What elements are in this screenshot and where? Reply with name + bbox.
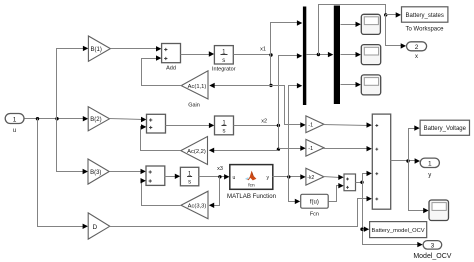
gain B(2) <box>88 107 109 131</box>
svg-text:Add: Add <box>166 66 176 72</box>
svg-text:Battery_states: Battery_states <box>406 13 444 19</box>
wire states to top <box>319 5 386 55</box>
wire OCV down <box>363 183 418 245</box>
wire u to B3 <box>57 119 85 172</box>
svg-text:f(u): f(u) <box>310 200 319 206</box>
svg-text:Model_OCV: Model_OCV <box>413 253 451 260</box>
svg-text:B(1): B(1) <box>91 47 102 53</box>
wire Ac(2,2) to Add2 <box>141 127 181 151</box>
wire Ac(3,3) to Add3 <box>142 181 181 206</box>
wire fcn y out <box>273 176 302 178</box>
svg-text:x1: x1 <box>260 47 266 53</box>
svg-text:To Workspace: To Workspace <box>406 27 445 33</box>
gain -1 (second) <box>306 139 324 156</box>
sum big (output) <box>372 114 390 209</box>
scope 4 <box>429 200 449 221</box>
scope 2 <box>361 45 380 65</box>
node y junction <box>406 159 409 162</box>
wire mux to demux <box>307 54 330 56</box>
To Workspace Battery_Voltage <box>420 120 469 135</box>
wire B1 to Add <box>111 48 158 50</box>
wire big sum out <box>391 160 417 162</box>
wire -1b to big sum <box>324 148 368 150</box>
integrator 1 <box>212 46 236 73</box>
wire -k2 to small add <box>324 177 340 178</box>
gain Ac(1,1) <box>181 71 208 109</box>
gain B(3) <box>88 159 109 184</box>
svg-text:3: 3 <box>431 243 435 250</box>
node x2 feedback junction <box>277 148 280 151</box>
wire -1a to big sum <box>324 125 368 126</box>
svg-text:Battery_model_OCV: Battery_model_OCV <box>372 228 425 234</box>
sum Add2 (row2) <box>147 114 166 133</box>
wire OCV to big sum <box>363 174 368 183</box>
gain Ac(2,2) <box>181 137 208 165</box>
wire x3 <box>199 176 226 178</box>
svg-text:1: 1 <box>13 116 17 123</box>
integrator 2 <box>215 116 234 135</box>
svg-text:Ac(2,2): Ac(2,2) <box>187 149 206 155</box>
wire demux to scope2 <box>341 54 357 56</box>
wire y to Battery_Voltage <box>409 129 416 161</box>
svg-text:s: s <box>223 129 226 135</box>
wire states to port x <box>386 15 402 46</box>
wire f(u) to small add <box>329 186 340 202</box>
wire Ac(1,1) to Add <box>142 59 182 86</box>
svg-text:B(2): B(2) <box>90 117 101 123</box>
To Workspace Battery_model_OCV <box>370 222 427 238</box>
wire x1 riser <box>271 23 298 86</box>
svg-text:-1: -1 <box>308 123 313 129</box>
wire Add3 to Integrator3 <box>165 176 177 178</box>
svg-text:Battery_Voltage: Battery_Voltage <box>424 126 467 132</box>
svg-text:-k2: -k2 <box>307 175 314 181</box>
svg-text:x3: x3 <box>217 166 223 172</box>
wire D to big sum <box>110 199 368 227</box>
svg-text:2: 2 <box>415 44 419 51</box>
wire u to D <box>38 119 85 227</box>
wire x1 to -1 gain <box>271 86 302 125</box>
scope 1 <box>361 14 380 34</box>
gain -k2 <box>306 168 324 185</box>
wire small add out <box>356 182 363 184</box>
svg-text:D: D <box>93 224 98 231</box>
svg-text:x2: x2 <box>261 119 267 125</box>
svg-text:Fcn: Fcn <box>310 211 319 217</box>
wire y to scope4 <box>409 161 425 211</box>
wire x1 to Ac(1,1) <box>215 85 271 87</box>
gain B(1) <box>88 36 110 61</box>
svg-text:u: u <box>233 175 236 181</box>
node u-B1B3 junction <box>55 117 58 120</box>
scope 3 <box>361 75 380 95</box>
integrator 3 <box>180 167 198 186</box>
svg-text:s: s <box>222 58 225 64</box>
sum Add (row1) <box>162 44 181 72</box>
svg-text:x: x <box>415 54 418 60</box>
svg-text:s: s <box>188 180 191 186</box>
sum Add3 (row3) <box>146 166 165 185</box>
output port 3 (Model_OCV) <box>413 241 451 260</box>
node u-D junction <box>36 117 39 120</box>
wire x2 <box>234 125 279 127</box>
svg-text:-1: -1 <box>308 146 313 152</box>
svg-text:fcn: fcn <box>248 183 255 189</box>
demux bar <box>334 6 340 105</box>
wire x1 <box>234 54 271 56</box>
wire fcn to f(u) <box>289 177 297 202</box>
mux bar <box>303 7 306 106</box>
gain Ac(3,3) <box>181 191 208 219</box>
wire states to Battery_states <box>386 14 397 16</box>
wire x2 to Ac(2,2) <box>214 150 279 152</box>
node x1 feedback junction <box>269 84 272 87</box>
svg-text:Ac(1,1): Ac(1,1) <box>188 84 207 90</box>
wire x3 to Ac(3,3) <box>214 177 220 206</box>
MATLAB Function block U1 <box>227 165 276 200</box>
wire B2 to Add2 <box>110 119 143 120</box>
gain -1 (first) <box>306 116 324 133</box>
To Workspace Battery_states <box>402 7 448 33</box>
node states top junction <box>384 13 387 16</box>
output port 1 (y) <box>420 158 439 178</box>
node states junction <box>317 53 320 56</box>
svg-text:y: y <box>428 173 431 179</box>
wire fcn to mux3 <box>289 86 298 177</box>
wire x2 riser to mux <box>279 56 298 150</box>
wire OCV to workspace block <box>363 229 366 231</box>
sum small add <box>344 174 356 191</box>
wire u to B1 <box>57 49 85 119</box>
wire Add2 to Integrator2 <box>166 125 211 127</box>
svg-text:Ac(3,3): Ac(3,3) <box>188 204 207 210</box>
input port 1 (u) <box>5 114 24 134</box>
node OCV junction <box>360 228 363 231</box>
wire B3 to Add3 <box>110 171 142 173</box>
svg-text:Gain: Gain <box>188 102 200 108</box>
svg-text:1: 1 <box>428 161 432 168</box>
wire Add to Integrator <box>181 54 211 56</box>
wire demux to scope3 <box>341 84 357 86</box>
svg-text:u: u <box>13 128 16 134</box>
svg-text:Integrator: Integrator <box>212 66 236 72</box>
wire x2 to -1 gain 2 <box>279 148 302 150</box>
Fcn block f(u) <box>301 194 329 217</box>
node fcn out junction <box>287 175 290 178</box>
wire u main <box>25 118 85 120</box>
gain D <box>88 213 110 239</box>
output port 2 (x) <box>407 42 427 60</box>
wire demux to scope1 <box>341 24 357 26</box>
svg-text:B(3): B(3) <box>90 170 101 176</box>
svg-text:MATLAB Function: MATLAB Function <box>227 193 276 200</box>
